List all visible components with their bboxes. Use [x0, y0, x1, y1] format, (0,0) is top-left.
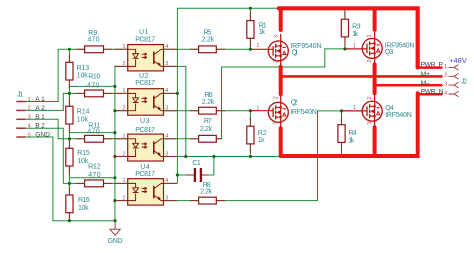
svg-text:2: 2	[28, 106, 31, 112]
THICK POWER WIRES	[279, 8, 442, 156]
svg-text:GND: GND	[108, 238, 123, 245]
svg-text:1: 1	[122, 88, 125, 94]
svg-text:10k: 10k	[78, 205, 89, 212]
vertical resistor lead 80.0-88.8	[68, 80, 70, 89]
resistor R11 470	[85, 135, 104, 142]
resistor R12 470	[85, 180, 104, 187]
svg-text:1k: 1k	[258, 137, 265, 144]
svg-text:2: 2	[122, 106, 125, 112]
svg-text:2.2k: 2.2k	[202, 36, 215, 43]
wire R16 bottom lead to GND rail	[68, 213, 70, 221]
svg-text:1: 1	[444, 64, 447, 70]
svg-text:1k: 1k	[259, 29, 266, 36]
svg-text:3: 3	[367, 34, 373, 37]
resistor leads ladder row 49.3	[76, 48, 85, 50]
svg-text:PC817: PC817	[135, 80, 155, 87]
pin J1-2	[16, 109, 26, 111]
svg-text:A2: A2	[35, 105, 45, 112]
wire R4 top lead	[341, 111, 343, 125]
svg-text:B1: B1	[35, 114, 45, 121]
svg-text:R16: R16	[78, 197, 90, 204]
svg-text:2: 2	[367, 60, 373, 63]
resistor R16 10k	[66, 195, 73, 213]
svg-text:470: 470	[87, 129, 99, 136]
RESISTORS horizontal	[85, 46, 217, 204]
pin J1-1	[16, 101, 26, 103]
wire M- from Q3/Q4 node to J2 pin3	[375, 84, 442, 87]
wire U3 pin2 stub	[115, 156, 128, 158]
svg-text:Q1: Q1	[292, 49, 299, 56]
wire R9 right to U1 pin1	[104, 48, 128, 50]
vertical resistor lead 124.0-132.8	[68, 124, 70, 133]
wire R8 right routed up to Q4 gate node	[216, 111, 341, 201]
node R2 bottom on Q2 source row	[249, 155, 252, 158]
svg-text:3: 3	[444, 82, 447, 88]
svg-text:J1: J1	[17, 91, 23, 98]
svg-text:5: 5	[28, 132, 31, 138]
WIRES-GREEN	[26, 8, 352, 220]
resistor R13 10k	[66, 62, 73, 80]
node B1/R14/R15/R11	[68, 137, 71, 140]
node Q2 gate / R2 / R6	[249, 109, 252, 112]
resistor leads ladder row 138.8	[76, 138, 85, 140]
svg-text:U3: U3	[140, 118, 149, 125]
wire R6 right to Q2 gate node	[216, 110, 250, 112]
svg-text:3: 3	[165, 151, 168, 157]
node A1/R13/R9	[68, 48, 71, 51]
wire net A1 from J1 pin1 to R9 row	[26, 49, 85, 101]
vertical resistor lead 166.0-174.8	[68, 166, 70, 175]
node cathode bus U3.2	[113, 155, 116, 158]
wire U4 pin2 stub	[115, 200, 128, 202]
wire Q3 drain to Q4 drain	[373, 64, 377, 93]
svg-text:R13: R13	[77, 65, 90, 72]
svg-text:IRF540N: IRF540N	[385, 112, 412, 119]
wire R12 right to U4 pin1	[104, 182, 128, 184]
resistor R10 470	[85, 90, 104, 97]
wire U2 pin4 to collector rail	[164, 92, 178, 94]
node cathode bus link1	[113, 85, 116, 88]
opto pin leads row 49.3/66.4	[115, 48, 128, 50]
node Q4 gate / R4	[340, 109, 343, 112]
wire C1 left lead	[177, 174, 194, 176]
node R16 bottom on GND rail	[68, 219, 71, 222]
node A2/R13/R14/R10	[68, 92, 71, 95]
wire U1 pin4 to R5	[164, 48, 199, 50]
capacitor C1 leads	[187, 174, 195, 176]
wire R15 bottom lead to R12 row	[68, 166, 70, 183]
vertical resistor lead 53.5-62.3	[68, 54, 70, 63]
wire net B2 from J1 pin4 jog down to R12 row	[26, 128, 85, 183]
svg-text:R5: R5	[204, 29, 212, 36]
wire net GND from J1 pin5 down to ground rail	[26, 137, 115, 221]
wire PWR_N from J2 pin4 down to source rail	[417, 93, 442, 96]
svg-text:R3: R3	[352, 24, 361, 31]
wire R5 right to Q1 gate node	[216, 48, 250, 50]
wire net A2 from J1 pin2 jog up to R10 row	[26, 93, 85, 110]
svg-text:4: 4	[28, 124, 31, 130]
svg-text:3: 3	[273, 35, 279, 38]
svg-text:4: 4	[165, 44, 168, 50]
ground symbol GND	[110, 221, 120, 236]
vertical resistor lead 97.5-106.3	[68, 98, 70, 107]
svg-text:4: 4	[165, 134, 168, 140]
svg-text:PC817: PC817	[135, 171, 155, 178]
resistor leads ladder row 93.4	[76, 92, 85, 94]
opto pin leads row 138.8/156.5	[115, 138, 128, 140]
svg-text:+48V: +48V	[449, 58, 467, 65]
wire M+ from Q1/Q2 node to J2 pin2	[281, 75, 442, 78]
pin J2-2	[449, 74, 459, 80]
svg-text:2: 2	[444, 73, 447, 79]
resistor R15 10k	[66, 148, 73, 166]
svg-text:1: 1	[256, 43, 259, 49]
node Q1 gate / R1 / R5	[249, 48, 252, 51]
transistor Q2 IRF540N N-channel	[250, 95, 288, 129]
svg-text:Q3: Q3	[385, 49, 394, 56]
node cathode bus link2	[113, 131, 116, 134]
wire R1 top lead	[249, 8, 251, 20]
wire R11 right to U3 pin1	[104, 138, 128, 140]
wire cathode bus vertical from U1 pin2 down to GND rail	[115, 66, 128, 220]
svg-text:3: 3	[165, 106, 168, 112]
transistor Q4 IRF540N N-channel	[342, 94, 383, 128]
wire Q3 source drop from rail	[373, 8, 377, 30]
svg-text:10k: 10k	[77, 117, 89, 124]
wire link row R15 to cathode bus	[69, 177, 115, 179]
node Q3 gate / R3	[343, 47, 346, 50]
svg-text:4: 4	[444, 90, 447, 96]
wire net B1 from J1 pin3 jog down to R11 row	[26, 119, 85, 139]
wire U3 pin4 to R7	[164, 138, 199, 140]
connector J1 pin stubs	[16, 102, 26, 138]
wire PWR_P stub to J2 pin1	[417, 66, 442, 69]
node C1 left on collector rail	[176, 173, 179, 176]
wire U1 pin3 down to Q2 source row	[164, 66, 186, 156]
svg-text:PC817: PC817	[135, 36, 155, 43]
wire R15 top lead	[68, 139, 70, 149]
node cathode bus U2.2	[113, 109, 116, 112]
svg-text:470: 470	[88, 37, 100, 44]
svg-text:Q2: Q2	[291, 99, 298, 106]
wire +48V top rail	[279, 8, 418, 67]
svg-text:470: 470	[88, 172, 100, 179]
node cathode bus U4.2	[113, 199, 116, 202]
resistor vertical lead at x=250.4	[249, 12, 251, 21]
pin J2-1	[449, 65, 459, 71]
resistor R7 2.2k	[199, 135, 217, 142]
svg-text:C1: C1	[192, 160, 200, 167]
svg-text:2.2k: 2.2k	[200, 189, 212, 196]
svg-text:1: 1	[353, 43, 356, 49]
connector J2 pin stubs	[449, 65, 459, 97]
svg-text:470: 470	[87, 83, 99, 90]
op-amp U4 optocoupler PC817 body	[128, 179, 164, 205]
wire R10 right to U2 pin1	[104, 92, 128, 94]
wire Q1 drain to Q2 drain	[279, 67, 283, 94]
wire C1 right lead up to Q2 source row	[201, 157, 214, 176]
wire U2 pin2 stub	[115, 110, 128, 112]
resistor vertical lead at x=250.4	[249, 144, 251, 153]
vertical resistor lead 186.3-195.0	[68, 186, 70, 195]
resistor R3 1k	[341, 19, 348, 37]
wire R2 bottom lead	[249, 144, 251, 157]
svg-text:2: 2	[122, 195, 125, 201]
wire link row R13 to cathode bus	[69, 85, 115, 87]
op-amp U3 optocoupler PC817 body	[128, 134, 164, 161]
svg-text:10k: 10k	[77, 73, 89, 80]
svg-text:PC817: PC817	[135, 127, 155, 134]
resistor leads mid row 200.6	[190, 200, 199, 202]
svg-text:3: 3	[273, 121, 279, 124]
svg-text:1: 1	[256, 105, 259, 111]
symbol leads (dark red pin/lead segments)	[69, 10, 345, 220]
node R1 top on +48 rail	[249, 7, 252, 10]
resistor vertical lead at x=250.4	[249, 117, 251, 126]
wire R3 top lead	[344, 10, 346, 19]
resistor R14 10k	[66, 106, 73, 124]
svg-text:J2: J2	[461, 78, 467, 85]
node C1 right on Q2 source row	[212, 155, 215, 158]
svg-text:Q4: Q4	[385, 105, 394, 112]
svg-text:GND: GND	[35, 132, 50, 139]
resistor vertical lead at x=341.5	[341, 116, 343, 125]
wire U2 pin3 to R6	[164, 110, 199, 112]
svg-text:2: 2	[367, 96, 373, 99]
svg-text:2.2k: 2.2k	[200, 126, 213, 133]
resistor R9 470	[85, 46, 104, 53]
pin J2-4	[449, 91, 459, 97]
svg-text:R10: R10	[88, 73, 100, 80]
wire R2 top lead	[249, 111, 251, 127]
wire Q1 source drop from rail	[279, 8, 283, 30]
wire R14 bottom lead to R11 row	[68, 124, 70, 139]
svg-text:B2: B2	[35, 123, 45, 130]
svg-text:1k: 1k	[352, 31, 358, 38]
resistor R4 1k	[338, 125, 345, 143]
svg-text:1: 1	[122, 178, 125, 184]
wire U4 pin3 to R8	[164, 200, 199, 202]
pin J1-3	[16, 118, 26, 120]
transistor Q1 IRF9540N P-channel	[250, 34, 288, 68]
vertical resistor lead 212.7-220.7	[68, 213, 70, 221]
resistor R2 1k	[247, 126, 254, 144]
resistor R6 2.2k	[199, 107, 217, 114]
svg-text:R15: R15	[77, 150, 90, 157]
resistor leads mid row 110.7	[190, 110, 199, 112]
capacitor C1	[195, 168, 201, 182]
resistor R1 1k	[247, 21, 254, 39]
node U2.4 on collector rail	[176, 92, 179, 95]
svg-text:1: 1	[28, 97, 31, 103]
op-amp U1 optocoupler PC817 body	[128, 45, 164, 71]
svg-text:PWR_N: PWR_N	[421, 89, 444, 96]
transistor Q3 IRF9540N P-channel	[345, 31, 382, 65]
svg-text:2: 2	[273, 96, 279, 99]
resistor leads ladder row 183.4	[76, 182, 85, 184]
resistor R5 2.2k	[199, 46, 217, 53]
op-amp U2 optocoupler PC817 body	[128, 89, 164, 116]
resistor vertical lead at x=344.9	[344, 10, 346, 19]
pin J1-5	[16, 136, 26, 138]
svg-text:4: 4	[165, 88, 168, 94]
wire R7 right routed up to Q3 gate node	[216, 49, 345, 139]
pin J2-3	[449, 82, 459, 88]
wire R13 bottom lead to R10 row	[68, 80, 70, 93]
svg-text:1: 1	[122, 134, 125, 140]
resistor vertical lead at x=344.9	[344, 37, 346, 46]
svg-text:3: 3	[367, 122, 373, 125]
svg-text:IRF540N: IRF540N	[290, 109, 317, 116]
svg-text:M+: M+	[421, 71, 430, 78]
svg-text:A1: A1	[35, 96, 45, 103]
svg-text:2.2k: 2.2k	[202, 99, 215, 106]
svg-text:M–: M–	[421, 80, 430, 87]
wire collector rail vertical to +48V rail	[177, 8, 278, 183]
pin J1-4	[16, 127, 26, 129]
svg-text:R6: R6	[205, 92, 213, 99]
resistor vertical lead at x=250.4	[249, 38, 251, 47]
svg-text:R14: R14	[77, 109, 90, 116]
node cathode bus at GND rail	[114, 219, 117, 222]
resistor R8 2.2k	[199, 197, 217, 204]
wire Q4 source drop to source rail	[373, 127, 377, 156]
svg-text:1k: 1k	[348, 138, 354, 145]
opto pin leads row 183.4/200.6	[115, 182, 128, 184]
svg-text:2: 2	[122, 61, 125, 67]
wire link row R14 to cathode bus	[69, 132, 115, 134]
svg-text:PWR_P: PWR_P	[421, 62, 443, 69]
wire R3 bottom lead	[344, 37, 346, 49]
resistor leads mid row 49.3	[190, 48, 199, 50]
wire U4 pin4 corner to collector rail	[128, 182, 178, 184]
RESISTORS vertical	[66, 19, 349, 213]
wire R13 top lead to A1 row	[68, 49, 70, 62]
wire R1 bottom lead	[249, 38, 251, 49]
wire PWR_N vertical and bottom source rail	[281, 93, 418, 156]
node B2/R15/R16/R12	[68, 182, 71, 185]
node U1.3 on Q2 source row	[184, 155, 187, 158]
svg-text:3: 3	[28, 115, 31, 121]
svg-text:R7: R7	[204, 118, 212, 125]
resistor vertical lead at x=341.5	[341, 142, 343, 151]
svg-text:2: 2	[122, 151, 125, 157]
svg-text:R4: R4	[349, 130, 357, 137]
wire R14 top lead	[68, 93, 70, 106]
wire R16 top lead	[68, 183, 70, 195]
svg-text:R12: R12	[88, 163, 101, 170]
node cathode bus link3	[113, 176, 116, 179]
opto pin leads row 93.4/110.7	[115, 92, 128, 94]
wire U3 pin3 to Q2 source corner	[164, 156, 279, 158]
svg-text:R2: R2	[258, 130, 267, 137]
vertical resistor lead 139.5-148.3	[68, 140, 70, 149]
svg-text:1: 1	[122, 44, 125, 50]
svg-text:2: 2	[273, 60, 279, 63]
svg-text:3: 3	[165, 195, 168, 201]
wire Q2 source drop to source rail	[279, 128, 283, 156]
resistor leads mid row 138.8	[190, 138, 199, 140]
svg-text:3: 3	[165, 61, 168, 67]
svg-text:1: 1	[353, 105, 356, 111]
wire Q4 gate node to gate lead	[342, 110, 353, 112]
svg-text:U1: U1	[139, 29, 148, 36]
wire R4 bottom lead to source rail	[341, 142, 343, 154]
svg-text:4: 4	[165, 178, 168, 184]
